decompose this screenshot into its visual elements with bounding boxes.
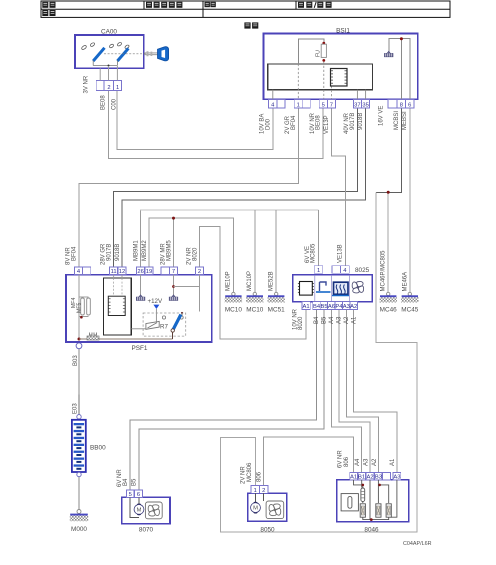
wire MB9M1 vertical from pin26 [140,210,142,267]
8050 fan [266,501,284,519]
BSI1 pin 8 [397,99,405,108]
header cell text 范围 [42,2,48,8]
ground M000 [70,510,88,533]
svg-text:A2: A2 [344,316,350,324]
svg-text:1: 1 [116,85,119,91]
8046 pin A3 [393,473,401,480]
svg-text:B4: B4 [123,478,129,486]
junction dots 8046 [362,484,365,487]
8025 pin A1 [302,302,310,310]
+12V supply symbol [148,298,163,321]
wire A4 (8025 to 8046 pin B1) [331,310,361,473]
header cell text 舒适和便利 [146,2,152,8]
8070 motor M [134,504,144,516]
relay output stub [172,332,174,339]
PSF1 maxi fuses MF4 MF5 [71,275,90,339]
PSF1 pin 19 [145,267,153,275]
relay R7 coil [131,321,159,329]
svg-text:B4: B4 [314,316,320,324]
wire BE08 (CA00 pin2 to BSI1 pin5, 10V NR) [108,91,323,159]
8050 pin 2 [260,486,269,494]
BSI1 pin 35 [362,99,370,108]
wire B03 (PSF1 battery terminal to BB00) [78,349,80,395]
wire MB9M2 (PSF1 pin19 to ground MC10) [149,218,233,292]
svg-text:8050: 8050 [260,527,275,534]
svg-text:ME46A: ME46A [402,272,408,292]
svg-text:A3: A3 [343,304,350,310]
wire BF04 (BSI1 pin1 to PSF1 pin4, 2V GR / 8V NR) [79,108,298,267]
8025 pin 4 [341,266,350,274]
BSI1 pin 7 [327,99,335,108]
svg-text:MC51: MC51 [268,307,285,314]
svg-text:MB9M1: MB9M1 [134,240,140,261]
ground MC10 (left) [225,292,243,313]
wire MC10P to ground MC10 [254,210,256,292]
svg-text:FU: FU [315,50,321,57]
svg-text:MF5: MF5 [77,303,83,313]
BSI1 pin 4 partner box [277,99,285,108]
svg-text:BF04: BF04 [72,246,78,261]
svg-text:MCBSI: MCBSI [394,111,400,130]
BSI1 pin 1 [294,99,302,108]
fuse FU inside BSI1 [315,42,326,62]
svg-text:BB00: BB00 [90,445,106,452]
BSI1 pin 4 [269,99,277,108]
svg-text:6V NR: 6V NR [338,450,344,468]
BSI1 internal dashed links [298,62,331,100]
PSF1 battery bus junction dot [78,338,81,341]
ground MC45 [401,292,419,313]
PSF1 battery terminal circle [76,343,82,349]
8025 sensor symbol [316,282,331,292]
svg-text:B3: B3 [375,475,382,481]
wire A2 (8025 to 8046 pin B3) [346,310,378,473]
wire MEBSI/ME46A (BSI1 pin6 to ground) [409,108,411,292]
svg-text:MC806: MC806 [247,462,253,482]
wire 9017B (BSI1 pin37 to PSF1 pin11, 40V NR) [114,108,358,267]
8025 empty pin [332,266,340,274]
svg-text:6V NR: 6V NR [117,469,123,487]
svg-text:1: 1 [254,488,257,494]
svg-text:12: 12 [119,269,125,275]
svg-text:2: 2 [262,488,265,494]
svg-text:26: 26 [137,269,143,275]
svg-text:M: M [137,508,142,514]
header cell text 功能 [205,2,210,7]
ignition switch CA00 [75,29,146,69]
wire ME52B to ground MC51 [275,210,277,292]
svg-text:A2: A2 [350,304,357,310]
PSF1 pin 7 partner box [161,267,169,275]
wire 8020 (PSF1 pin2 to 8025 pin A1) [200,226,307,339]
PSF1 pin 7 [169,267,177,275]
svg-text:MEBSI: MEBSI [402,111,408,130]
svg-text:B5: B5 [132,478,138,486]
blower resistor unit 8046 [337,480,409,534]
wire C001 (CA00 pin1 to BSI1 pin4, 10V BA D00) [117,91,273,150]
junction dot BSI1 ground [400,37,403,40]
wire B4 (8025 to 8070 pin5) [130,310,316,490]
electronic module chip inside BSI1 [331,69,348,87]
8046 pin B3 [375,473,383,480]
8046 internal wiring [354,480,397,520]
PSF1 pin 12 [118,267,126,275]
svg-text:R7: R7 [160,324,168,331]
BSI1 pin stubs [273,90,366,100]
svg-text:6: 6 [408,103,411,109]
8046 resistor element 2 [376,504,381,517]
8046 resistor element 3 [386,504,391,517]
svg-text:B5: B5 [322,316,328,324]
BSI1 pin 37 [353,99,361,108]
ground MC10 (right) [246,292,264,313]
junction dot MB9M2/MB9M5 [172,217,175,220]
battery BB00 [72,415,106,477]
svg-text:B03: B03 [73,355,79,366]
BSI1 pin 6 [406,99,414,108]
junction dot on MCBSI net [387,191,390,194]
wire MC46P/MC805 branch to ground MC46 [387,192,389,292]
svg-text:1: 1 [297,103,300,109]
svg-text:2: 2 [107,85,110,91]
BSI1 internal ground net [389,39,410,100]
wire 806 (8050 pin2 to 8046 pin A1, 6V NR) [264,437,354,486]
wire pin7 to pin2 link [174,287,200,312]
8046 pin B1 [358,473,366,480]
svg-text:9018B: 9018B [115,244,121,261]
svg-text:MC45: MC45 [401,307,418,314]
svg-text:MC10P: MC10P [247,271,253,291]
wire VE13P/VE13B (BSI1 pin7 to 8025 pin4) [331,108,345,266]
8070 pin 5 [126,490,134,498]
8025 pin A6 [328,302,335,310]
svg-text:VE13P: VE13P [324,115,330,134]
svg-text:B5: B5 [320,304,327,310]
svg-text:BE08: BE08 [101,95,107,110]
8025 heater resistor symbol [332,282,349,295]
8050 motor stubs [254,493,256,502]
svg-text:ME10P: ME10P [226,271,232,291]
svg-text:BF04: BF04 [291,115,297,130]
svg-text:9017B: 9017B [107,244,113,261]
svg-text:3V NR: 3V NR [84,75,90,93]
8025 pin A3 [343,302,350,310]
svg-text:MC10: MC10 [246,307,263,314]
svg-text:D00: D00 [265,118,271,130]
svg-text:16V VE: 16V VE [379,106,385,126]
svg-text:MB9M5: MB9M5 [166,240,172,261]
wire BB00 negative to M000 [78,477,80,510]
wire MC806 long route (BSI ground net down to 8050 pin1) [221,192,417,532]
svg-text:MC805: MC805 [311,243,317,263]
svg-text:C04AP/L6R: C04AP/L6R [403,541,432,547]
svg-text:MC46: MC46 [380,307,397,314]
8046 pin A1 [350,473,358,480]
svg-text:8025: 8025 [355,267,370,274]
svg-text:A1: A1 [350,475,357,481]
wire MCBSI (BSI1 pin8 ground feed) [376,108,402,192]
svg-text:MB9M2: MB9M2 [142,240,148,261]
PSF1 internal ground symbol (pin26) [136,275,145,301]
8025 pin A2 [350,302,357,310]
svg-text:806: 806 [344,456,350,467]
CA00 connector pins [96,66,121,91]
8025 pin B4 [313,302,321,310]
8046 resistor element 1 [360,504,365,517]
ground MC46 [380,292,398,313]
svg-text:8020: 8020 [298,316,304,330]
svg-text:ME52B: ME52B [268,271,274,291]
svg-text:A2: A2 [366,475,373,481]
svg-text:7: 7 [172,269,175,275]
svg-text:A1: A1 [303,304,310,310]
PSF1 pin 11 [110,267,118,275]
wire 9018B (BSI1 pin35 to PSF1 pin12, 28V GR) [122,108,366,267]
8046 thermal fuse box [341,494,358,511]
svg-text:MC46P/MC805: MC46P/MC805 [381,250,387,292]
8050 motor M [251,502,261,514]
8070 motor loop wiring [130,497,139,517]
svg-text:A1: A1 [390,458,396,466]
wire A1 (8025 to 8046 pin A3) [354,310,397,473]
fuse box PSF1 [66,275,212,352]
svg-text:806: 806 [257,471,263,482]
fuse icon on battery bus [87,333,99,341]
svg-text:A3: A3 [337,316,343,324]
svg-text:B1: B1 [358,475,365,481]
8070 fan [145,502,162,519]
PSF1 pin 4 partner box [83,267,91,275]
BSI1 pin 5 [319,99,327,108]
8025 pin 1 [314,266,323,274]
junction dot pin7 branch [172,285,175,288]
8070 pin 6 [134,490,142,498]
8025 fan symbol [352,281,363,292]
8046 pin A2 [366,473,374,480]
svg-text:19: 19 [146,269,152,275]
svg-text:MC10: MC10 [225,307,242,314]
key symbol [144,47,169,61]
relay R7 dashed enclosure [143,313,186,336]
svg-text:A4: A4 [329,316,335,324]
PSF1 pin 2 [195,267,203,275]
wire B5 (8025 to 8070 pin6) [139,310,324,490]
wire A3 (8025 to 8046 pin A2) [339,310,370,473]
8025 pin B5 [320,302,327,310]
svg-text:A4: A4 [355,458,361,466]
svg-text:37: 37 [354,103,360,109]
wire E03 (battery cable lower section) [78,395,80,415]
svg-text:M000: M000 [71,526,87,533]
BSI1 pin 1 partner box [302,99,310,108]
svg-text:1: 1 [317,268,320,274]
svg-text:A1: A1 [351,316,357,324]
wire MB9M5 (PSF1 pin7 branch) [173,218,175,267]
svg-text:A3: A3 [393,475,400,481]
BSI unit BSI1 [264,28,418,100]
PSF1 pin 4 [74,267,82,275]
svg-text:8: 8 [400,103,403,109]
svg-text:E03: E03 [72,403,78,414]
header cell text 部件 [42,10,48,16]
PSF1 battery feed to relay [79,338,173,340]
svg-text:9018B: 9018B [358,113,364,130]
8046 resistor coil [361,488,365,502]
svg-text:2: 2 [198,269,201,275]
relay R7 contacts [162,312,183,319]
svg-text:8020: 8020 [192,247,198,261]
blower unit 8050 [248,493,287,533]
svg-text:5: 5 [129,492,132,498]
PSF1 internal module box [104,275,132,335]
svg-text:6: 6 [137,492,140,498]
wire MB9M1 bus (PSF1 pin26 / MC10P / ME52B / MC805) [141,210,319,267]
svg-text:5: 5 [322,103,325,109]
blower motor 8070 [122,497,170,533]
BSI1 unnumbered pin [388,99,397,108]
svg-text:VE13B: VE13B [338,244,344,263]
header cell text 通风/加热 [298,2,304,8]
BSI1 internal supply trace [298,39,324,64]
wire MC805 (to 8025 pin1) [318,210,320,266]
svg-text:C00: C00 [111,98,117,110]
svg-text:+12V: +12V [148,298,163,305]
svg-text:8070: 8070 [139,527,154,534]
svg-text:9017B: 9017B [350,113,356,130]
svg-text:A6: A6 [328,304,335,310]
relay R7 blade [171,315,181,333]
svg-text:2V NR: 2V NR [240,466,246,484]
8050 pin 1 [251,486,259,494]
blower control unit 8025 [293,267,372,302]
page title 原理 [244,22,250,28]
ground MC51 [268,292,286,313]
svg-text:8046: 8046 [364,527,379,534]
svg-text:A3: A3 [363,458,369,466]
BSI1 internal ground symbol [384,51,393,57]
PSF1 pin 26 [137,267,145,275]
svg-text:BE08: BE08 [316,115,322,130]
svg-text:A2: A2 [372,458,378,466]
svg-text:11: 11 [111,269,117,275]
8025 chip symbol [298,282,314,296]
8046 empty pin [383,473,391,480]
svg-text:M: M [253,506,258,512]
header table frame [41,1,450,17]
svg-text:7: 7 [330,103,333,109]
8025 pin P4 [335,302,343,310]
svg-text:35: 35 [362,103,368,109]
svg-text:PSF1: PSF1 [132,345,148,352]
PSF1 internal ground symbol (pin7) [169,275,178,301]
